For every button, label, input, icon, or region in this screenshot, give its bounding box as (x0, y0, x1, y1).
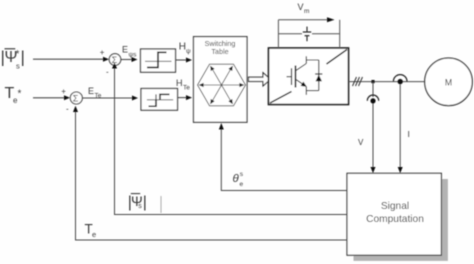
label V (358, 138, 364, 147)
svg-text:|: | (143, 194, 147, 211)
svg-text:*: * (16, 49, 20, 60)
wire torque reference to summing junction S2 (33, 87, 70, 100)
voltage vector hexagon with six sector arrows (198, 64, 246, 106)
wire H_psi comparator to switching table (176, 42, 193, 63)
svg-text:Te: Te (183, 85, 190, 92)
flux hysteresis comparator block (141, 49, 176, 72)
label Vm (298, 2, 310, 15)
wire torque feedback to S2 (66, 105, 347, 241)
svg-text:Table: Table (211, 47, 228, 56)
faint stub near flux label (160, 196, 162, 213)
svg-text:I: I (408, 129, 410, 139)
svg-text:Σ: Σ (73, 94, 79, 104)
inverter block (269, 48, 349, 105)
summing junction S2 (torque) (70, 92, 82, 104)
wire current sensor to signal computation (398, 84, 403, 173)
node flux reference input |Psi_s*| (1, 48, 25, 71)
summing junction S1 (flux) (109, 54, 121, 66)
wire flux magnitude feedback to S1 (106, 62, 347, 214)
wire flux reference to summing junction S1 (33, 48, 109, 62)
torque hysteresis comparator block (141, 89, 178, 111)
anti-parallel diode D1 (306, 56, 322, 95)
junction node on output bus (371, 80, 374, 83)
three-phase slash marks (353, 77, 363, 86)
signal computation block (347, 173, 441, 255)
wire voltage sensor to signal computation (371, 104, 376, 174)
current sensor on output bus (393, 75, 407, 85)
node torque reference input Te* (5, 85, 22, 105)
svg-text:Signal: Signal (381, 201, 409, 212)
label I (408, 129, 410, 139)
svg-text:m: m (304, 8, 309, 15)
svg-text:+: + (100, 48, 105, 57)
svg-text:e: e (240, 181, 244, 188)
svg-text:E: E (122, 45, 128, 55)
svg-text:-: - (66, 105, 69, 114)
svg-text:ψ: ψ (186, 48, 191, 55)
motor M (425, 58, 473, 106)
wire H_Te comparator to switching table (176, 78, 192, 100)
svg-text:e: e (92, 230, 96, 239)
DC source / capacitor symbol (303, 27, 311, 42)
svg-text:H: H (179, 42, 186, 53)
svg-text:s: s (138, 203, 142, 210)
signal computation block shadow (354, 179, 448, 261)
DC link rails above inverter (278, 17, 339, 48)
wire E_Te from S2 to torque hysteresis comparator (83, 86, 139, 101)
voltage sensor on tap (367, 82, 378, 104)
svg-text:|: | (21, 48, 25, 67)
svg-text:V: V (358, 138, 364, 147)
IGBT Q1 inside inverter (287, 60, 307, 91)
svg-text:s: s (16, 62, 20, 71)
svg-text:M: M (445, 77, 453, 87)
svg-text:*: * (18, 89, 22, 100)
block arrow from switching table to inverter (249, 73, 271, 86)
wire E_psi from S1 to flux hysteresis comparator (121, 45, 138, 63)
svg-text:Computation: Computation (366, 214, 424, 225)
label |Psi_s| feedback (128, 193, 147, 211)
label theta_e^s (233, 171, 244, 188)
svg-text:+: + (61, 87, 66, 96)
svg-text:θ: θ (233, 173, 240, 185)
label Te feedback (85, 222, 97, 240)
svg-text:V: V (298, 2, 304, 12)
svg-text:E: E (88, 86, 94, 96)
svg-text:H: H (176, 78, 183, 88)
wire inverter output to motor (349, 81, 425, 83)
svg-text:-: - (106, 68, 109, 77)
svg-text:ψs: ψs (129, 52, 138, 59)
wire theta feedback to switching table (219, 123, 347, 191)
svg-text:Te: Te (95, 93, 102, 100)
svg-text:s: s (240, 171, 244, 178)
switching table block (194, 37, 248, 123)
